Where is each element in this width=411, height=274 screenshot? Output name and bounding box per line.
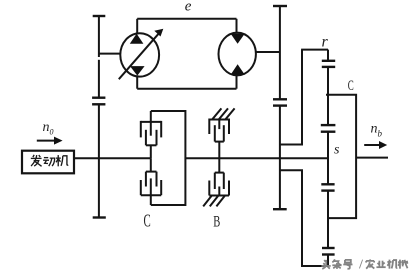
动 [43, 158, 55, 166]
brake B upper outer half with housing hatching [209, 108, 234, 134]
clutch C frame (drum) [151, 111, 186, 205]
头 [321, 260, 330, 269]
sun-planet mesh (upper) [321, 124, 336, 126]
clutch C upper inner half [146, 130, 157, 158]
svg-text:C: C [348, 77, 354, 94]
engine box 发动机 [22, 151, 74, 174]
svg-text:s: s [334, 142, 340, 157]
机 [387, 260, 397, 269]
/ [359, 260, 362, 269]
gear b2 free gear on main shaft [273, 104, 287, 106]
机 [56, 155, 68, 166]
wire main shaft clutch output to sun gear [185, 157, 328, 159]
node n0 input speed label [43, 120, 54, 137]
wire motor top stem [236, 19, 238, 33]
wire engine output shaft to clutch C input [74, 157, 151, 159]
wire ring frame stem lower [327, 255, 329, 267]
wire hydraulic loop top (line e) [137, 18, 236, 20]
gear a1 on pump input shaft (left column, top) [93, 15, 106, 17]
brake B upper inner half [215, 125, 224, 158]
wire gear a1 to pump [99, 53, 121, 55]
ring gear mesh r (upper) [322, 60, 335, 62]
业 [376, 261, 385, 268]
svg-text:n: n [43, 120, 50, 135]
brake B lower inner half [215, 158, 224, 189]
brake B lower outer half with housing hatching [203, 181, 229, 207]
sun-planet mesh (lower) [321, 183, 334, 185]
planet gear lower [327, 191, 329, 248]
motor M (fixed displacement) [219, 33, 256, 76]
watermark 头条号 / 农业机械 (drawn strokes) [321, 259, 408, 268]
wire output arrow [364, 141, 387, 149]
ring gear mesh r (lower) [322, 247, 335, 249]
engine label text 发动机 (drawn strokes) [31, 155, 68, 167]
planet gear upper [327, 67, 329, 125]
svg-text:r: r [322, 33, 329, 50]
号 [343, 260, 352, 269]
svg-text:e: e [185, 0, 192, 14]
clutch C lower outer half [141, 178, 161, 205]
wire ring frame top [301, 49, 328, 51]
wire motor bottom stem [236, 75, 238, 89]
svg-text:0: 0 [50, 128, 54, 137]
clutch C upper outer half [141, 111, 161, 137]
wire pump bottom stem [136, 76, 138, 89]
svg-text:b: b [378, 129, 383, 139]
wire hydraulic loop bottom [137, 88, 236, 90]
gear a2 on engine shaft (left column, bottom) [92, 103, 105, 105]
wire output shaft from carrier [356, 157, 388, 159]
wire ring frame bottom and left riser [280, 170, 328, 266]
sun gear s [327, 132, 329, 185]
wire ring frame stem to ring mesh [327, 50, 329, 61]
svg-text:C: C [144, 212, 151, 231]
carrier C frame [326, 95, 356, 218]
wire motor output to gear b1 [256, 51, 280, 53]
svg-text:n: n [371, 122, 378, 137]
械 [398, 260, 408, 269]
wire ring drive hub upper (gear b2 to ring frame) [280, 50, 302, 145]
农 [366, 259, 374, 268]
clutch C lower inner half [146, 158, 157, 186]
gear b1 motor output gear [273, 5, 287, 7]
条 [332, 259, 341, 268]
pump P (variable displacement) [119, 29, 164, 79]
node nb output speed label [371, 122, 383, 139]
wire pump top stem [136, 19, 138, 34]
发 [31, 155, 42, 167]
wire input arrow [37, 137, 63, 145]
svg-text:B: B [213, 213, 220, 231]
